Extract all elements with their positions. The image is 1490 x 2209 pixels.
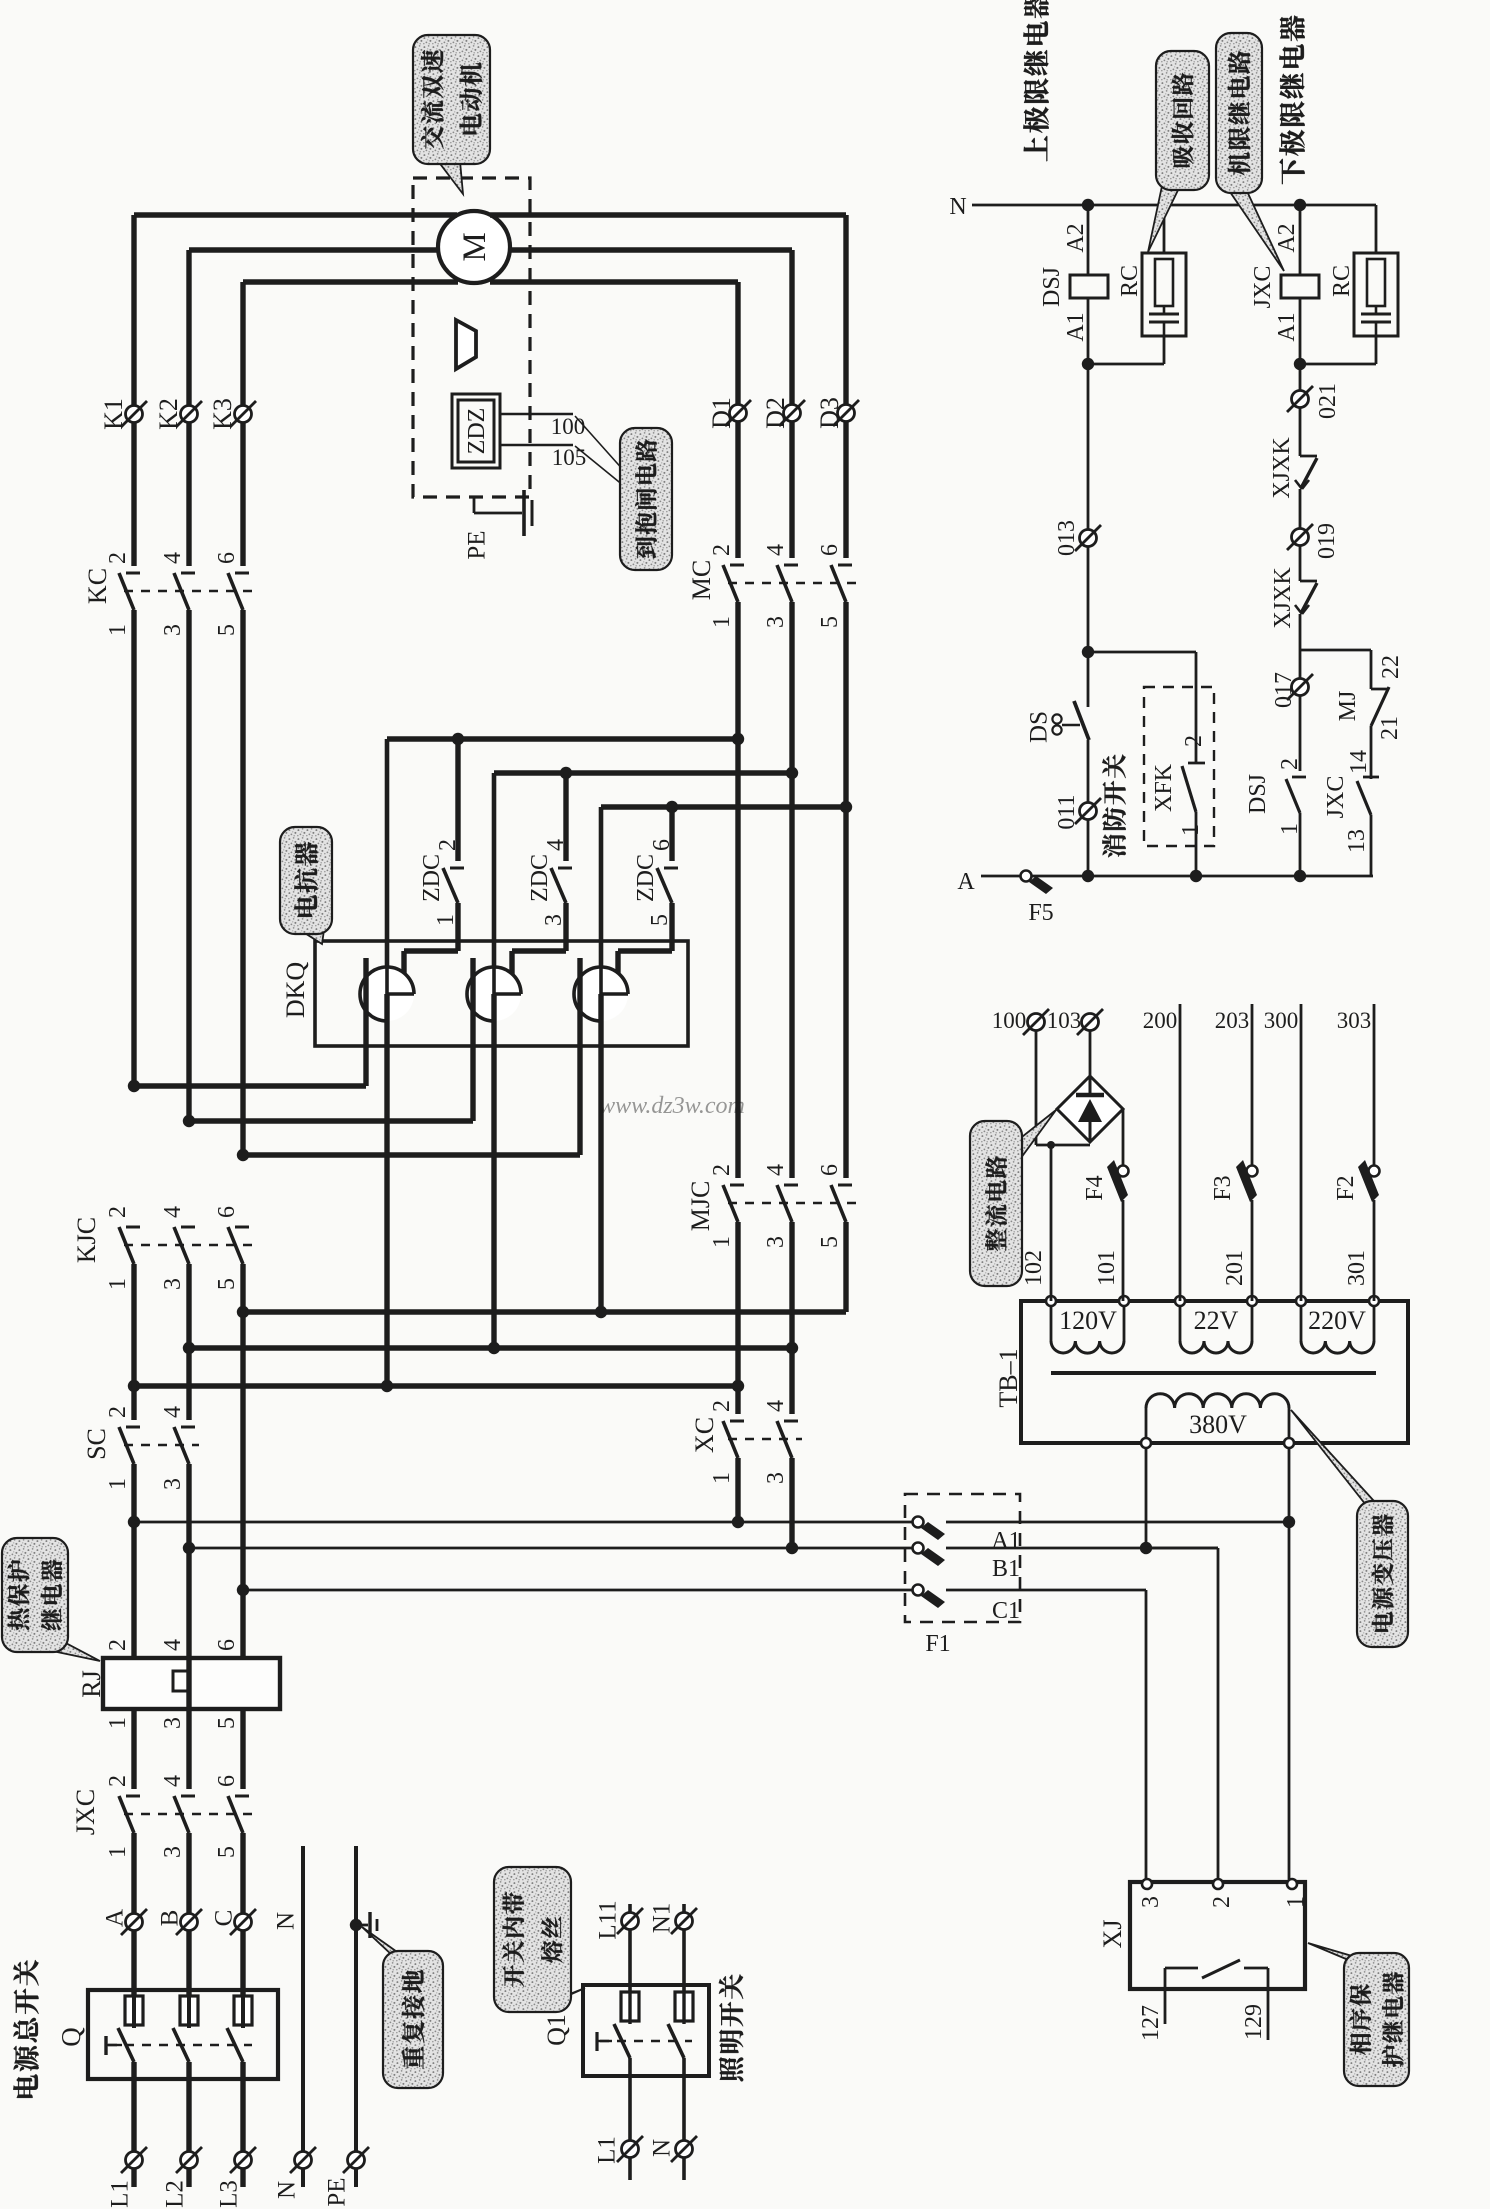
svg-text:2: 2 xyxy=(105,552,131,564)
svg-text:105: 105 xyxy=(552,445,587,470)
terminal 017 xyxy=(1292,679,1309,696)
junction bypass1 xyxy=(452,733,464,745)
svg-text:F2: F2 xyxy=(1333,1175,1359,1200)
terminal 300w xyxy=(1296,1296,1306,1306)
terminal 201w xyxy=(1247,1296,1257,1306)
N bus xyxy=(972,204,1376,207)
fuse F1 pole A xyxy=(913,1517,946,1541)
phase-sequence relay XJ box xyxy=(1130,1882,1305,1989)
svg-text:3: 3 xyxy=(160,1478,186,1490)
svg-text:A1: A1 xyxy=(991,1528,1020,1554)
wire ZDC bypass 2 lower xyxy=(563,903,568,951)
bridge rectifier xyxy=(1057,1076,1123,1142)
contactor XC pole 1-2 xyxy=(723,1421,744,1458)
contactor MC pole 3-4 xyxy=(777,565,798,602)
Q blade pole x=134 xyxy=(118,2028,134,2062)
svg-text:22V: 22V xyxy=(1194,1306,1239,1335)
junction D2 lower bus xyxy=(786,1342,798,1354)
fuse F2 xyxy=(1358,1160,1380,1202)
svg-text:XC: XC xyxy=(690,1417,719,1453)
lower bus D2-K2 xyxy=(189,1345,792,1350)
wire K2 to tap junction xyxy=(186,610,191,1121)
svg-text:ZDC: ZDC xyxy=(633,854,659,902)
wire ZDC bypass 1 lower xyxy=(455,903,460,951)
svg-text:5: 5 xyxy=(817,616,843,628)
contactor JXC pole 1-2 xyxy=(119,1796,140,1833)
tap1 horizontal to K1 xyxy=(134,1083,366,1088)
contactor JXC pole 5-6 xyxy=(228,1796,249,1833)
reactor coil 1 xyxy=(360,967,414,1021)
winding 380V leads xyxy=(1145,1408,1148,1443)
fuse F5 xyxy=(1021,871,1054,895)
PE lead from motor frame xyxy=(473,497,476,513)
KC linkage dashed xyxy=(124,590,253,592)
wire A to Q xyxy=(131,1833,136,1996)
contact JXC 13-14 xyxy=(1357,777,1379,815)
fuse-switch block F1 dashed box xyxy=(905,1494,1020,1622)
wire 021 xyxy=(1299,364,1302,456)
wire ZDC jog 2 xyxy=(512,948,566,953)
wire D3 MJC to corner xyxy=(843,1222,848,1312)
wire K2 top run xyxy=(189,247,438,252)
svg-text:L3: L3 xyxy=(216,2180,243,2208)
contactor KC pole 5-6 xyxy=(228,573,249,610)
brake coil ZDZ xyxy=(452,394,500,468)
svg-text:021: 021 xyxy=(1315,383,1341,419)
svg-text:N: N xyxy=(273,1912,300,1930)
Q pole wire x=134 xyxy=(131,2062,136,2160)
wire D1 MJC to XC xyxy=(735,1222,740,1414)
svg-text:D2: D2 xyxy=(761,397,790,429)
reactor DKQ box xyxy=(315,941,688,1046)
terminal 380V left xyxy=(1141,1438,1151,1448)
wire K3 top run xyxy=(243,279,458,284)
svg-text:K3: K3 xyxy=(208,398,237,430)
terminal D3 xyxy=(838,405,855,422)
svg-text:5: 5 xyxy=(214,1846,240,1858)
svg-text:1: 1 xyxy=(105,1846,131,1858)
coil feed 3 xyxy=(599,807,604,994)
contactor SC pole 3-4 xyxy=(174,1427,195,1464)
tie JXC-RC2 xyxy=(1300,363,1376,366)
svg-text:201: 201 xyxy=(1222,1250,1248,1286)
wire D2 to coil2 feed xyxy=(494,770,792,775)
svg-text:4: 4 xyxy=(763,544,789,556)
svg-text:019: 019 xyxy=(1314,523,1340,559)
svg-text:1: 1 xyxy=(1178,824,1204,836)
wire XC2 to phase B bus xyxy=(789,1458,794,1548)
svg-text:6: 6 xyxy=(214,1775,240,1787)
Q1 pole wire x=630 xyxy=(628,2058,632,2149)
Q linkage dashed xyxy=(108,2044,252,2046)
coil feed 1 xyxy=(385,739,390,994)
svg-text:200: 200 xyxy=(1143,1008,1178,1033)
wire K1 vertical xyxy=(131,215,136,566)
wire C1 down to XJ-3 xyxy=(1145,1590,1148,1879)
svg-text:K1: K1 xyxy=(99,398,128,430)
svg-text:6: 6 xyxy=(649,839,675,851)
caption lighting switch xyxy=(719,2057,743,2081)
fuse F1 pole B xyxy=(913,1543,946,1567)
svg-text:4: 4 xyxy=(543,839,569,851)
svg-text:A2: A2 xyxy=(1063,223,1089,252)
terminal K2 xyxy=(181,406,198,423)
wire K1 to tap junction xyxy=(131,610,136,1086)
svg-text:Q: Q xyxy=(56,2027,86,2047)
fuse F4 xyxy=(1107,1160,1129,1202)
callout phase-sequence relay xyxy=(1308,1943,1409,2086)
svg-text:6: 6 xyxy=(817,544,843,556)
phase B bus xyxy=(189,1547,913,1550)
svg-text:3: 3 xyxy=(541,914,567,926)
svg-text:1: 1 xyxy=(105,1278,131,1290)
svg-text:TB–1: TB–1 xyxy=(994,1348,1023,1407)
terminal L11 xyxy=(622,1913,639,1930)
Q1 fuse pole x=630 xyxy=(621,1992,639,2021)
wire 103 to bridge xyxy=(1089,1031,1092,1076)
svg-text:N: N xyxy=(274,2181,301,2199)
svg-text:1: 1 xyxy=(709,1236,735,1248)
terminal D1 xyxy=(730,405,747,422)
svg-text:L1: L1 xyxy=(107,2180,134,2208)
wire ZDC jog 1 xyxy=(404,948,458,953)
junction K3 phase C feed xyxy=(237,1584,249,1596)
wire 203 upper xyxy=(1251,1004,1254,1166)
svg-text:6: 6 xyxy=(817,1164,843,1176)
phase C bus xyxy=(243,1589,913,1592)
svg-text:21: 21 xyxy=(1377,716,1403,740)
svg-text:1: 1 xyxy=(105,624,131,636)
junction D1 lower bus xyxy=(732,1380,744,1392)
Q pole wire x=189 xyxy=(186,2062,191,2160)
MJC linkage dashed xyxy=(728,1202,856,1204)
wire D3 to coil3 feed xyxy=(601,804,846,809)
svg-text:4: 4 xyxy=(160,552,186,564)
winding 22V xyxy=(1180,1341,1252,1353)
relay coil DSJ xyxy=(1087,205,1090,275)
svg-text:www.dz3w.com: www.dz3w.com xyxy=(599,1093,745,1119)
contactor MJC pole 1-2 xyxy=(723,1185,744,1222)
svg-text:PE: PE xyxy=(464,530,491,559)
A bus xyxy=(981,875,1021,878)
MJ-JXC branch top xyxy=(1300,649,1371,652)
coil3 output to lower bus xyxy=(598,994,603,1312)
callout repeated grounding xyxy=(362,1927,443,2088)
svg-text:PE: PE xyxy=(324,2177,351,2206)
wire ZDC jog 3 xyxy=(618,948,672,953)
terminal L2 xyxy=(181,2152,198,2169)
svg-text:4: 4 xyxy=(160,1775,186,1787)
svg-text:RJ: RJ xyxy=(77,1670,106,1697)
XJ terminal 2 xyxy=(1213,1879,1223,1889)
svg-text:RC: RC xyxy=(1329,265,1355,297)
svg-text:3: 3 xyxy=(160,1846,186,1858)
svg-text:A: A xyxy=(102,1909,129,1927)
svg-text:6: 6 xyxy=(214,1206,240,1218)
svg-text:2: 2 xyxy=(1277,758,1303,770)
wire 303 lower xyxy=(1373,1200,1376,1301)
wire to junction 650 xyxy=(1299,614,1302,771)
svg-text:1: 1 xyxy=(105,1478,131,1490)
coil1 output to lower bus xyxy=(384,994,389,1386)
svg-text:MJC: MJC xyxy=(686,1181,715,1232)
callout leader lines to brake-circuit bubble xyxy=(575,416,625,472)
svg-text:F5: F5 xyxy=(1028,900,1053,926)
svg-text:5: 5 xyxy=(214,624,240,636)
svg-text:5: 5 xyxy=(647,914,673,926)
terminal N1 xyxy=(676,1913,693,1930)
svg-text:C1: C1 xyxy=(992,1598,1020,1624)
svg-text:L2: L2 xyxy=(162,2180,189,2208)
wire D2 down to MJC xyxy=(789,602,794,1178)
AC two-speed motor M xyxy=(438,211,510,283)
terminal L1 of Q1 xyxy=(622,2141,639,2158)
svg-text:4: 4 xyxy=(160,1206,186,1218)
wire C to Q xyxy=(240,1833,245,1996)
winding 120V leads xyxy=(1050,1306,1053,1341)
contactor MJC pole 5-6 xyxy=(831,1185,852,1222)
contactor MJC pole 3-4 xyxy=(777,1185,798,1222)
callout rectifier circuit xyxy=(970,1110,1056,1286)
thermal relay RJ box xyxy=(103,1658,280,1709)
SC linkage dashed xyxy=(124,1444,199,1446)
terminal 301w xyxy=(1369,1296,1379,1306)
wire ZDC bypass 2 upper xyxy=(563,773,568,861)
svg-text:2: 2 xyxy=(105,1206,131,1218)
svg-text:F3: F3 xyxy=(1210,1175,1236,1200)
coil1 tap lead xyxy=(363,958,368,1086)
svg-text:2: 2 xyxy=(435,839,461,851)
wire K1 RJ to JXC xyxy=(131,1709,136,1789)
KJC linkage dashed xyxy=(124,1244,253,1246)
svg-text:M: M xyxy=(457,232,493,261)
terminal 011 xyxy=(1080,803,1097,820)
svg-text:L1: L1 xyxy=(594,2136,621,2164)
tap3 horizontal to K3 xyxy=(243,1152,580,1157)
terminal A xyxy=(126,1914,143,1931)
svg-text:XFK: XFK xyxy=(1151,763,1177,812)
lower bus D3-K3 xyxy=(243,1309,846,1314)
wire K3 KJC down xyxy=(240,1264,245,1658)
contactor KJC pole 1-2 xyxy=(119,1227,140,1264)
limit switch XJXK lower xyxy=(1295,581,1317,614)
contactor JXC pole 3-4 xyxy=(174,1796,195,1833)
wire B to Q xyxy=(186,1833,191,1996)
switch DS xyxy=(1052,701,1089,740)
svg-text:100: 100 xyxy=(551,414,586,439)
terminal 100 xyxy=(1028,1014,1045,1031)
svg-text:Q1: Q1 xyxy=(542,2014,571,2046)
svg-text:120V: 120V xyxy=(1059,1306,1117,1335)
terminal PE bottom xyxy=(348,2152,365,2169)
svg-text:ZDC: ZDC xyxy=(419,854,445,902)
wire 102 to terminal xyxy=(1050,1145,1053,1301)
Q fuse pole x=134 xyxy=(125,1996,143,2025)
contactor MC pole 5-6 xyxy=(831,565,852,602)
wire L11 xyxy=(628,1904,632,1992)
svg-text:RC: RC xyxy=(1117,265,1143,297)
svg-text:4: 4 xyxy=(763,1400,789,1412)
wire D3 down to MJC xyxy=(843,602,848,1178)
contactor SC pole 1-2 xyxy=(119,1427,140,1464)
Q handle xyxy=(104,2036,107,2055)
svg-text:JXC: JXC xyxy=(1323,776,1349,819)
svg-text:1: 1 xyxy=(433,914,459,926)
XFK contact xyxy=(1182,763,1205,812)
Q1 handle xyxy=(595,2032,598,2051)
caption upper limit relay xyxy=(1024,136,1048,161)
svg-text:100: 100 xyxy=(992,1008,1027,1033)
Q1 blade pole x=630 xyxy=(614,2024,630,2058)
fuse F1 pole C xyxy=(913,1585,946,1609)
transformer TB-1 box xyxy=(1021,1301,1408,1443)
RJ pole 2 through-wire xyxy=(186,1658,191,1709)
wire N1 xyxy=(682,1904,686,1992)
Q1 linkage dashed xyxy=(600,2040,692,2042)
caption main power switch xyxy=(13,2074,38,2097)
callout reactor xyxy=(280,827,332,944)
contact ZDC 5-6 xyxy=(657,868,678,903)
wire B1 jog xyxy=(1146,1547,1218,1550)
contact DSJ 1-2 xyxy=(1286,777,1306,813)
svg-text:ZDZ: ZDZ xyxy=(464,408,490,455)
wire XC1 to phase A bus xyxy=(735,1458,740,1522)
Q1 pole wire x=684 xyxy=(682,2058,686,2149)
coil2 output to lower bus xyxy=(491,994,496,1348)
wire K2 SC to RJ xyxy=(186,1464,191,1658)
wire B1 down to XJ-2 xyxy=(1217,1548,1220,1879)
svg-text:2: 2 xyxy=(105,1775,131,1787)
fuse F3 xyxy=(1236,1160,1258,1202)
wire K3 RJ to JXC xyxy=(240,1709,245,1789)
terminal 380V right xyxy=(1284,1438,1294,1448)
svg-text:300: 300 xyxy=(1264,1008,1299,1033)
RJ heater notch xyxy=(173,1671,189,1691)
winding 220V leads xyxy=(1300,1306,1303,1341)
svg-text:DSJ: DSJ xyxy=(1245,774,1271,814)
caption lower limit relay xyxy=(1279,159,1304,185)
svg-text:22: 22 xyxy=(1378,655,1404,679)
wire K3 vertical xyxy=(240,282,245,566)
lighting switch Q1 box xyxy=(583,1985,709,2076)
svg-text:A1: A1 xyxy=(1063,312,1089,341)
terminal N of Q1 xyxy=(676,2141,693,2158)
Q1 blade pole x=684 xyxy=(668,2024,684,2058)
tap2 horizontal to K2 xyxy=(189,1118,473,1123)
contact MJ NC xyxy=(1371,687,1389,726)
svg-text:XJ: XJ xyxy=(1098,1920,1127,1949)
svg-text:DKQ: DKQ xyxy=(281,962,310,1019)
XJ contact xyxy=(1165,1960,1268,2040)
wire DSJ contact to A bus xyxy=(1299,813,1302,876)
MC linkage dashed xyxy=(728,582,856,584)
terminal K1 xyxy=(126,406,143,423)
wire ZDC bypass 1 upper xyxy=(455,739,460,861)
svg-text:2: 2 xyxy=(709,1164,735,1176)
terminal 013 xyxy=(1080,530,1097,547)
svg-text:2: 2 xyxy=(105,1406,131,1418)
XJ terminal 1 xyxy=(1287,1879,1297,1889)
terminal D2 xyxy=(784,405,801,422)
svg-text:JXC: JXC xyxy=(71,1789,100,1835)
contact ZDC 1-2 xyxy=(443,868,464,903)
wire F4 to terminal 101 xyxy=(1122,1200,1125,1301)
wire D2 vertical xyxy=(789,250,794,558)
wire K2 vertical xyxy=(186,250,191,566)
svg-text:6: 6 xyxy=(214,1639,240,1651)
svg-text:MC: MC xyxy=(687,560,716,600)
svg-text:103: 103 xyxy=(1047,1008,1082,1033)
wire 200 xyxy=(1179,1004,1182,1301)
svg-text:5: 5 xyxy=(214,1717,240,1729)
contact ZDC 3-4 xyxy=(551,868,572,903)
lower bus D1-K1 xyxy=(134,1383,738,1388)
wire 303 upper xyxy=(1373,1004,1376,1166)
svg-text:DSJ: DSJ xyxy=(1039,267,1065,307)
Q blade pole x=189 xyxy=(173,2028,189,2062)
svg-text:JXC: JXC xyxy=(1250,266,1276,309)
terminal N bottom xyxy=(295,2152,312,2169)
wire K3 to tap junction xyxy=(240,610,245,1155)
svg-text:MJ: MJ xyxy=(1335,691,1361,722)
terminal 102 xyxy=(1046,1296,1056,1306)
wire 100 from ZDZ xyxy=(500,413,573,415)
junction B1 xyxy=(1140,1542,1152,1554)
svg-text:A: A xyxy=(957,869,975,895)
brake shoe symbol xyxy=(456,320,476,369)
wire K2 RJ to JXC xyxy=(186,1709,191,1789)
contactor KC pole 1-2 xyxy=(119,573,140,610)
XC linkage dashed xyxy=(728,1438,802,1440)
svg-text:3: 3 xyxy=(763,1236,789,1248)
svg-text:XJXK: XJXK xyxy=(1269,437,1295,499)
junction D3-reactor3 xyxy=(840,801,852,813)
PE repeat-ground tap xyxy=(350,1919,362,1931)
svg-text:102: 102 xyxy=(1021,1250,1047,1286)
wire 011 xyxy=(1087,740,1090,876)
svg-text:SC: SC xyxy=(82,1428,111,1460)
XFK branch top xyxy=(1088,651,1196,654)
callout to brake circuit xyxy=(620,428,672,570)
wire N xyxy=(301,1846,305,2160)
terminal L1 xyxy=(126,2152,143,2169)
winding 22V leads xyxy=(1179,1306,1182,1341)
wire 013 xyxy=(1087,364,1090,707)
wire 380V-left to B1 xyxy=(1145,1448,1148,1548)
JXC linkage dashed xyxy=(124,1813,253,1815)
wire 203 lower xyxy=(1251,1200,1254,1301)
svg-text:3: 3 xyxy=(1138,1896,1164,1908)
branch wire between MJ and JXC contact xyxy=(1370,726,1373,779)
svg-text:3: 3 xyxy=(763,1472,789,1484)
svg-text:4: 4 xyxy=(160,1639,186,1651)
svg-text:203: 203 xyxy=(1215,1008,1250,1033)
tie DSJ-RC1 xyxy=(1088,363,1164,366)
limit switch XJXK upper xyxy=(1295,456,1317,489)
svg-text:D1: D1 xyxy=(707,397,736,429)
svg-text:13: 13 xyxy=(1344,829,1370,853)
wire D1 to coil1 feed xyxy=(387,736,738,741)
svg-text:L11: L11 xyxy=(595,1900,622,1939)
svg-text:4: 4 xyxy=(160,1406,186,1418)
svg-text:5: 5 xyxy=(817,1236,843,1248)
wire D3 vertical xyxy=(843,215,848,558)
svg-text:129: 129 xyxy=(1241,2004,1267,2040)
terminal 200w xyxy=(1175,1296,1185,1306)
callout switch with fuse xyxy=(494,1867,585,2012)
main switch Q box xyxy=(88,1990,278,2079)
terminal 021 xyxy=(1292,391,1309,408)
